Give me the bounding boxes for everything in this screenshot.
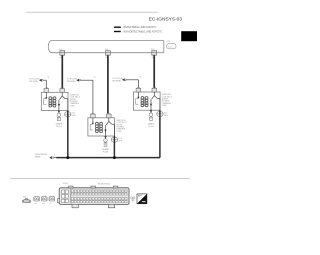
- connector F18 (ignition coil, 2-pin): [49, 197, 55, 205]
- wire from page arrow down to coil No.1 pin 1: [45, 80, 47, 88]
- wire coil No.3 to spark plug: [105, 136, 107, 139]
- legend non-detectable line for DTC: [114, 31, 163, 34]
- svg-text:TOR): TOR): [70, 105, 75, 107]
- svg-text:PLUG: PLUG: [148, 126, 154, 128]
- ignition coil No.5 (with power transistor) U3: [133, 88, 160, 111]
- wire from page arrow down to coil No.3 pin 1: [92, 80, 94, 114]
- ignition coil No.1 (with power transistor) U1: [41, 88, 68, 111]
- connector F23 (bus splice 1): [59, 49, 65, 59]
- connector F16 (ignition coil, 2-pin): [34, 197, 40, 205]
- svg-text:: NON-DETECTABLE LINE FOR DTC: : NON-DETECTABLE LINE FOR DTC: [122, 31, 162, 34]
- junction node (coil 1 signal): [66, 156, 69, 159]
- svg-text:TOR): TOR): [116, 131, 121, 133]
- wire coil No.5 signal to ECM trunk: [159, 110, 161, 157]
- svg-text:W/B: W/B: [72, 115, 76, 117]
- svg-text:SW (M/B): SW (M/B): [67, 81, 76, 83]
- connector F25 (bus splice 3): [151, 49, 157, 59]
- label spark plug No.1: [56, 123, 63, 129]
- wire drop from bus to ignition coil 3: [153, 55, 155, 88]
- svg-text:*6: *6: [139, 77, 141, 79]
- connector oval (coil No.5 harness): [157, 111, 169, 117]
- svg-text:*6: *6: [47, 77, 49, 79]
- connector oval (coil No.3 harness): [111, 137, 123, 143]
- label spark plug No.3: [102, 148, 109, 154]
- ignition coil No.3 (with power transistor) U2: [88, 113, 115, 136]
- spark plug No.1: [57, 113, 61, 121]
- svg-text:SW (M/B): SW (M/B): [112, 81, 121, 83]
- label preceding page: [35, 154, 48, 159]
- wire coil No.1 to spark plug: [58, 111, 60, 114]
- connector F23 (side view): [22, 197, 31, 203]
- wire coil No.1 signal to ECM trunk: [67, 111, 69, 158]
- svg-text:PLUG: PLUG: [56, 126, 62, 128]
- bottom rule: [10, 178, 190, 180]
- wire bus right corner (down): [163, 41, 165, 53]
- page reference arrow (ECM signal, preceding page): [49, 156, 52, 159]
- label ignition coil No.1: [70, 95, 81, 108]
- page reference arrow (coil No.3 power feed): [67, 77, 96, 83]
- svg-text:: DETECTABLE LINE FOR DTC: : DETECTABLE LINE FOR DTC: [122, 26, 156, 29]
- junction node (coil 3 signal): [113, 156, 116, 159]
- wire bus continuation curl (left end): [48, 41, 51, 53]
- connector latch detail: [131, 197, 135, 202]
- spark plug No.5: [149, 113, 153, 121]
- svg-text:W/B: W/B: [118, 141, 122, 143]
- connector F17 (ignition coil, 2-pin): [41, 197, 47, 205]
- svg-text:PAGE: PAGE: [35, 156, 41, 159]
- spark plug No.3: [104, 139, 108, 147]
- wire coil No.5 to spark plug: [150, 110, 152, 113]
- wire ignition power bus (top run): [52, 40, 164, 42]
- svg-text:W/B: W/B: [164, 115, 168, 117]
- wire coil No.3 signal to ECM trunk: [113, 136, 115, 158]
- connector F24 (bus splice 2): [105, 49, 111, 59]
- page reference arrow (coil No.5 power feed): [112, 77, 141, 83]
- svg-text:GY: GY: [42, 203, 46, 205]
- svg-text:EC-IGNSYS-03: EC-IGNSYS-03: [149, 17, 183, 23]
- harness side symbol H.S.: [137, 194, 147, 204]
- connector oval (coil No.1 harness): [65, 112, 77, 118]
- wire ECM signal trunk: [56, 157, 160, 159]
- connector F101 ECM (face view): [57, 186, 129, 208]
- svg-text:GY: GY: [34, 203, 38, 205]
- wire ignition power bus (lower run): [52, 52, 164, 54]
- section index tab: [181, 31, 197, 41]
- svg-text:*1: *1: [54, 154, 56, 156]
- arrowhead (spark plug feed): [104, 136, 106, 138]
- svg-text:*6: *6: [94, 77, 96, 79]
- svg-text:GY: GY: [50, 203, 54, 205]
- arrowhead (spark plug feed): [150, 110, 152, 112]
- connector ref oval F24 (bus feed): [167, 41, 177, 49]
- wire drop from bus to ignition coil 1: [61, 55, 63, 88]
- label ignition coil No.3: [116, 120, 127, 133]
- svg-text:F101: F101: [63, 183, 69, 185]
- legend detectable line for DTC: [114, 26, 157, 29]
- svg-text:F24: F24: [167, 41, 171, 43]
- svg-text:PLUG: PLUG: [103, 152, 109, 154]
- wire drop from bus to ignition coil 2: [107, 55, 109, 114]
- arrowhead (spark plug feed): [58, 111, 60, 113]
- wire from page arrow down to coil No.5 pin 1: [137, 80, 139, 89]
- top rule: [26, 11, 158, 13]
- svg-text:SW (M/B): SW (M/B): [29, 81, 38, 83]
- label ignition coil No.5: [162, 94, 173, 107]
- svg-text:ECM (F101): ECM (F101): [98, 183, 110, 185]
- svg-text:TOR): TOR): [162, 105, 167, 107]
- label spark plug No.5: [148, 122, 155, 128]
- page reference arrow (coil No.1 power feed): [29, 77, 49, 83]
